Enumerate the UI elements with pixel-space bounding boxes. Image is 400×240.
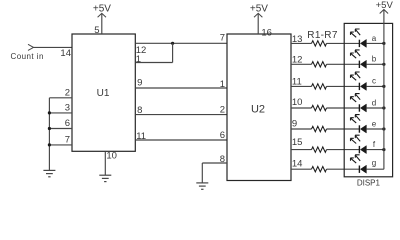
svg-text:2: 2	[65, 88, 70, 99]
svg-text:10: 10	[106, 150, 117, 161]
resistor R7	[312, 167, 327, 172]
wire Count in to U1 pin 14	[34, 46, 73, 48]
svg-text:14: 14	[292, 159, 303, 170]
svg-text:1: 1	[220, 79, 225, 90]
wire U2 pin 16 to +5V	[257, 14, 259, 35]
wire R6 to LED f	[327, 149, 360, 151]
node junction pin 7	[48, 143, 51, 146]
svg-text:2: 2	[220, 105, 225, 116]
node junction rail d	[382, 106, 385, 109]
wire LED c to anode rail	[366, 85, 384, 87]
wire U1 pin 7	[49, 144, 72, 146]
LED c	[350, 72, 366, 90]
wire R2 to LED b	[327, 63, 360, 65]
svg-text:U2: U2	[251, 103, 265, 115]
svg-text:1: 1	[136, 54, 141, 65]
svg-text:7: 7	[220, 33, 225, 44]
LED b	[350, 50, 366, 68]
svg-text:c: c	[372, 77, 376, 86]
wire U1 pin 11 to U2 pin 6	[135, 139, 227, 141]
resistor R2	[312, 62, 327, 67]
svg-text:16: 16	[261, 28, 272, 39]
svg-text:+5V: +5V	[93, 4, 111, 15]
wire U1 pin 9 to U2 pin 1	[135, 87, 227, 89]
wire U1 pin 3	[49, 112, 72, 114]
svg-text:U1: U1	[97, 88, 110, 99]
node junction pin 6	[48, 127, 51, 130]
node junction rail b	[382, 63, 385, 66]
wire U1 pin 1	[135, 62, 172, 64]
ground (U1 pin 10)	[99, 174, 111, 176]
wire LED f to anode rail	[366, 149, 384, 151]
svg-text:a: a	[372, 34, 377, 43]
svg-text:g: g	[372, 159, 376, 168]
wire left ground rail	[48, 98, 50, 171]
wire U1 pin 6	[49, 128, 72, 130]
wire U2 pin 12 to R2	[291, 63, 312, 65]
svg-text:9: 9	[137, 78, 142, 89]
wire U1 pin 10 to ground	[104, 151, 106, 175]
node junction rail a	[382, 42, 385, 45]
wire R7 to LED g	[327, 168, 360, 170]
svg-text:15: 15	[292, 137, 303, 148]
power +5V (U2)	[254, 13, 262, 17]
resistor R1	[312, 41, 327, 46]
wire LED b to anode rail	[366, 63, 384, 65]
wire U2 pin 10 to R4	[291, 107, 312, 109]
node junction rail e	[382, 127, 385, 130]
wire LED g to anode rail	[366, 168, 384, 170]
svg-text:5: 5	[94, 25, 99, 36]
svg-text:9: 9	[292, 118, 297, 129]
LED g	[350, 155, 366, 173]
node junction pin 3	[48, 111, 51, 114]
wire U1 pin 8 to U2 pin 2	[135, 114, 227, 116]
node junction rail c	[382, 85, 385, 88]
wire LED e to anode rail	[366, 128, 384, 130]
wire U1 pin 2	[49, 97, 72, 99]
IC U2 body	[227, 34, 291, 181]
LED d	[350, 94, 366, 112]
wire anode rail to +5V	[383, 10, 385, 170]
svg-text:R1-R7: R1-R7	[307, 30, 338, 41]
node junction rail f	[382, 148, 385, 151]
ground (left rail)	[43, 169, 55, 171]
wire LED a to anode rail	[366, 42, 384, 44]
resistor R4	[312, 105, 327, 110]
svg-text:+5V: +5V	[250, 4, 268, 15]
display DISP1 body	[344, 23, 392, 176]
node junction pin12/pin1	[171, 42, 174, 45]
wire U1 pin 12 to U2 pin 7	[135, 42, 227, 44]
svg-text:6: 6	[65, 118, 70, 129]
input port Count in	[28, 44, 34, 50]
wire U2 pin 15 to R6	[291, 149, 312, 151]
resistor R6	[312, 147, 327, 152]
svg-text:b: b	[372, 55, 377, 64]
wire junction down	[172, 43, 174, 62]
svg-text:10: 10	[292, 97, 303, 108]
IC U1 body	[72, 34, 135, 151]
ground (U2 pin 8)	[196, 182, 208, 184]
wire U2 pin 13 to R1	[291, 42, 312, 44]
svg-text:3: 3	[65, 103, 70, 114]
wire U2 pin 8 to ground	[202, 162, 227, 164]
svg-text:6: 6	[220, 130, 225, 141]
wire R1 to LED a	[327, 42, 360, 44]
LED f	[350, 135, 366, 153]
resistor R5	[312, 126, 327, 131]
svg-text:7: 7	[65, 135, 70, 146]
LED e	[350, 115, 366, 133]
power +5V (U1)	[98, 13, 106, 17]
power +5V (DISP1)	[380, 10, 388, 14]
wire U2 pin 9 to R5	[291, 128, 312, 130]
svg-text:+5V: +5V	[376, 0, 394, 11]
svg-text:e: e	[372, 120, 377, 129]
LED a	[350, 29, 366, 47]
wire U1 pin 5 to +5V	[101, 14, 103, 35]
svg-text:Count in: Count in	[11, 52, 44, 61]
wire R3 to LED c	[327, 85, 360, 87]
wire U2 pin 11 to R3	[291, 85, 312, 87]
wire U2 pin 14 to R7	[291, 168, 312, 170]
resistor R3	[312, 84, 327, 89]
svg-text:14: 14	[60, 48, 71, 59]
wire LED d to anode rail	[366, 107, 384, 109]
svg-text:d: d	[372, 98, 376, 107]
wire R5 to LED e	[327, 128, 360, 130]
wire R4 to LED d	[327, 107, 360, 109]
svg-text:11: 11	[292, 76, 302, 87]
svg-text:DISP1: DISP1	[357, 178, 381, 187]
